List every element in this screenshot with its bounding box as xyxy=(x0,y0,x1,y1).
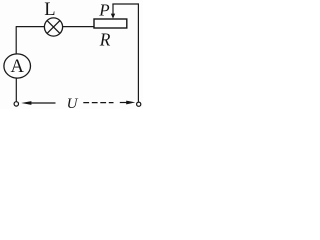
voltage dashed line and arrow right (points to right terminal) xyxy=(83,101,135,105)
wire: top horizontal from wiper to top-right corner xyxy=(112,3,138,5)
wire: left vertical from corner down to ammeter top xyxy=(15,26,17,54)
wire: ammeter bottom to left terminal xyxy=(15,78,17,101)
terminal node (right, open circle) xyxy=(137,102,141,106)
lamp L symbol (circle with cross) xyxy=(44,18,62,36)
svg-text:U: U xyxy=(67,96,79,109)
terminal node (left, open circle) xyxy=(14,102,18,106)
wire: top-left horizontal from corner to lamp xyxy=(16,26,45,28)
wiper P: vertical stem with down arrowhead onto box top xyxy=(111,4,115,19)
resistor R (box) xyxy=(94,19,127,28)
wire: right vertical from top corner down to right terminal xyxy=(137,3,139,101)
svg-text:R: R xyxy=(99,30,111,50)
ammeter U1 (circle with A) xyxy=(4,54,31,78)
svg-text:L: L xyxy=(44,0,55,20)
svg-text:A: A xyxy=(11,57,25,77)
voltage arrow left (points to left terminal) xyxy=(21,101,55,105)
svg-text:P: P xyxy=(98,0,109,19)
wire: lamp to resistor box xyxy=(62,26,93,28)
